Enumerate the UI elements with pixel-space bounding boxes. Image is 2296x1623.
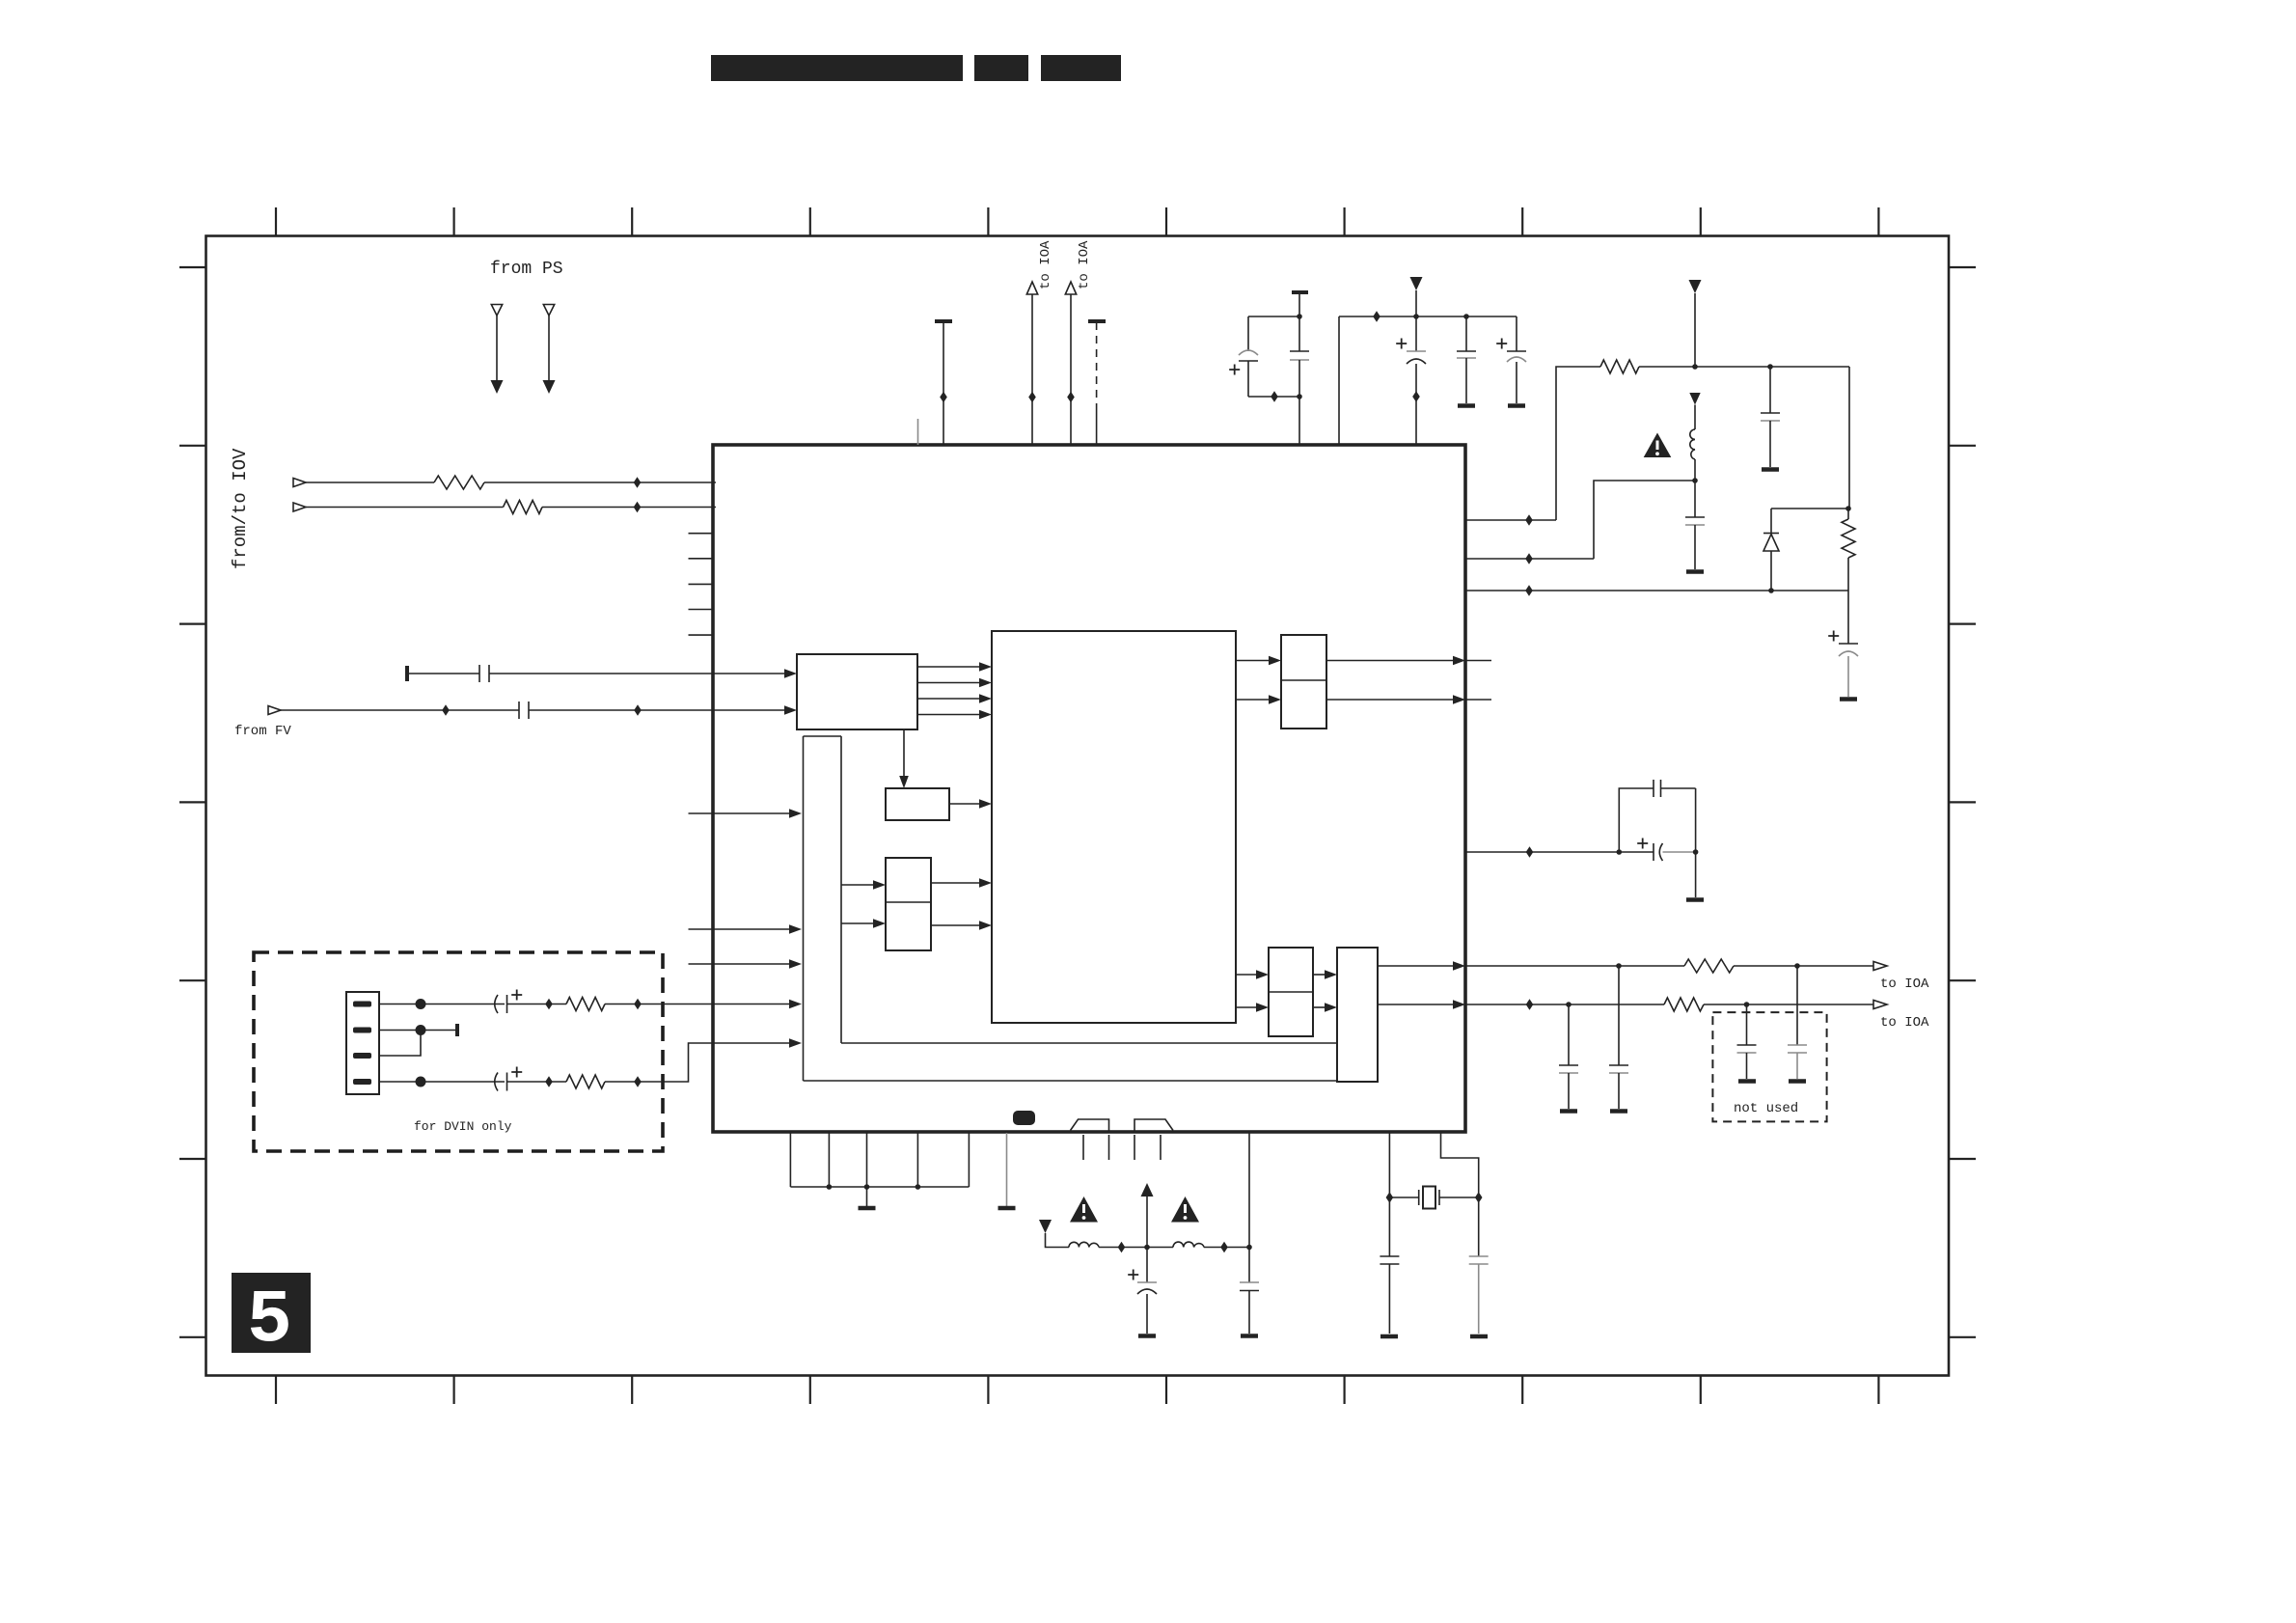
junction on FV wire left [442,704,450,716]
ground under C16 [1610,1109,1627,1114]
wire right vertical from resistor row [1848,367,1850,509]
ground under C20 [1241,1334,1258,1338]
wire crystal right leg riser [1441,1133,1479,1256]
wire U1a down to U1b [903,729,905,776]
capacitor C10 [1761,367,1780,467]
wire bus riser outer [803,736,805,1081]
connector J1 [346,992,379,1094]
wire IC right pin 1 run [1465,519,1556,521]
terminal arrow from/to IOV line 1 [293,479,306,487]
wire U1a output 1 to core [917,666,979,668]
junction [1767,364,1773,370]
wire bus bottom run outer [804,1080,1338,1082]
capacitor C9 electrolytic [1496,316,1526,403]
signal arrow up to IOA 1 [1026,282,1037,294]
junction [1297,394,1302,399]
sub-block U1e dual output top [1281,635,1326,729]
sub-block U1b [886,788,949,820]
supply rail bar over C6 [1292,290,1308,294]
junction [827,1184,833,1190]
IC left pin stub 3 [689,583,715,585]
junction [634,999,642,1010]
wire U1c output 1 to core [931,882,979,884]
warning triangle right [1644,433,1672,458]
wire bus tap to U1c input 2 [841,922,873,924]
ground under C9 [1508,403,1525,408]
sub-block U1g output buffer loop [1337,948,1378,1082]
junction [1246,1245,1252,1251]
wire output A run to IOA [1465,965,1684,967]
IC bottom connector pin stubs [1082,1135,1084,1160]
svg-text:to IOA: to IOA [1077,240,1092,289]
redacted title text bar 3 [1041,55,1121,81]
junction [1525,553,1533,564]
IC right edge stub out 2 [1465,699,1491,701]
junction [1067,392,1075,403]
junction [1794,963,1800,969]
junction [1386,1192,1394,1203]
wire decoupling pair top link [1248,316,1299,317]
wire output B run to IOA [1465,1004,1664,1005]
wire L-filter mid [1099,1247,1173,1249]
resistor R8 [1664,998,1704,1011]
inductor L2 [1069,1242,1099,1247]
ground under C10 [1762,467,1779,472]
wire from FV into IC pin [281,709,519,711]
wire R3 to IC [605,1004,713,1005]
junction [1373,311,1380,322]
warning triangle filter right [1171,1197,1199,1223]
ground under C18 [1789,1079,1806,1084]
redacted title text bar 1 [711,55,963,81]
IC left pin stub 4 [689,609,715,611]
junction [1297,314,1302,319]
junction on IOV line 1 [634,477,642,488]
crystal X1 [1389,1187,1478,1209]
resistor R5 [1600,360,1639,373]
wire diode top link [1771,508,1848,509]
junction [1475,1192,1483,1203]
wire IOV line 1 into IC [306,481,434,483]
wire U1g output A to IC edge [1378,965,1453,967]
wire U1e output 2 to IC edge [1326,699,1453,701]
junction on rail stub [940,392,947,403]
junction [416,999,426,1009]
wire input arrow to U1a lower [713,709,784,711]
ground under stub group [866,1187,868,1206]
wire IC input arrow pin D to bus [713,1004,789,1005]
wire supply row to IC top [1338,316,1340,445]
black component blob on IC [1013,1111,1035,1125]
junction [1768,588,1774,593]
wire U1f output 1 to U1g [1313,974,1325,976]
ground under C15 [1560,1109,1577,1114]
ground under C19 [1138,1334,1156,1338]
wire riser pin2 to coil node [1594,481,1695,559]
connector tab outline left on IC bottom [1071,1119,1109,1133]
wire crystal left leg [1388,1133,1390,1256]
junction [1525,514,1533,526]
capacitor C15 [1559,1004,1578,1109]
resistor R2 [504,501,542,514]
capacitor C14 electrolytic horizontal [1637,839,1695,862]
junction [1463,314,1469,319]
signal arrow up to IOA 2 [1065,282,1076,294]
wire core to U1f input 2 [1236,1006,1256,1008]
wire L-filter right [1204,1247,1249,1249]
wire U1e output 1 to IC edge [1326,660,1453,662]
supply arrow down into L-filter [1039,1220,1069,1248]
wire series-cap line into IC pin [405,666,409,681]
wire bus bottom run inner [841,1042,1337,1044]
wire J1 pin4 run [379,1081,505,1083]
junction [1744,1002,1750,1007]
ground under C17 [1738,1079,1756,1084]
wire core to U1e input 2 [1236,699,1269,701]
resistor R3 [566,998,605,1011]
wire feedback bridge bottom run [1465,851,1654,853]
junction [416,1025,426,1035]
capacitor C6 [1290,293,1309,445]
capacitor C4 electrolytic horizontal [495,1067,566,1091]
terminal arrow to IOA output B [1873,1001,1887,1009]
supply arrow down onto resistor row [1689,280,1702,367]
IC U1 (main video processor block outline) [713,445,1465,1132]
IC left pin stub 1 [689,533,715,535]
junction on IOV line 2 [634,502,642,513]
wire input arrow to U1a upper [713,673,784,674]
wire IC input arrow pin E to bus [713,1042,789,1044]
wire U1f output 2 to U1g [1313,1006,1325,1008]
terminal bar pin2 [455,1024,459,1036]
ground under C22 [1470,1334,1488,1339]
IC left pin stub 5 [689,634,715,636]
supply rail dashed stub with bar [1088,319,1106,323]
junction [1566,1002,1572,1007]
resistor R7 [1684,959,1734,973]
wire U1a output 2 to core [917,682,979,684]
wire IC input arrow pin B to bus [689,928,790,930]
wire IOV line 2 into IC [306,507,504,509]
terminal arrow from FV [268,706,281,715]
ground under C12 [1840,697,1857,701]
ground under bridge [1686,897,1704,902]
resistor R1 [434,476,484,489]
wire bridge right leg to ground [1695,788,1697,897]
junction [864,1184,870,1190]
IC top pin stub [917,419,919,445]
wire U1a output 3 to core [917,698,979,700]
wire joining bottom stubs [790,1186,969,1188]
sub-block U1d central core [992,631,1236,1023]
capacitor C13 horizontal [1654,780,1696,797]
sub-block U1a input interface [797,654,917,729]
wire U1c output 2 to core [931,924,979,926]
wire core to U1e input 1 [1236,660,1269,662]
wire supply row horizontal [1339,316,1517,317]
junction [545,1076,553,1087]
wire IC right pin 2 run [1465,558,1594,560]
svg-text:from PS: from PS [490,260,563,279]
wire IC right pin 3 run [1465,590,1848,591]
IC right edge stub out 1 [1465,660,1491,662]
junction [545,999,553,1010]
ground under C11 [1686,569,1704,574]
wire U1g output B to IC edge [1378,1004,1453,1005]
inductor L3 [1173,1242,1204,1247]
supply arrow down onto row [1410,277,1423,316]
junction [1616,963,1622,969]
page number badge 5 [232,1273,311,1363]
wire resistor row to corner [1639,366,1849,368]
svg-text:to IOA: to IOA [1880,977,1929,992]
redacted title text bar 2 [974,55,1028,81]
sub-block U1c dual stage [886,858,931,950]
junction [1413,314,1419,319]
capacitor C11 [1685,481,1705,569]
junction [1525,585,1533,596]
wire J1 pin1 run [379,1004,505,1005]
terminal arrow from/to IOV line 2 [293,503,306,511]
diode D1 [1763,509,1779,591]
junction [634,1076,642,1087]
capacitor C21 [1380,1256,1399,1334]
for DVIN only dashed box [254,952,663,1151]
capacitor C22 [1469,1256,1489,1334]
svg-text:for DVIN only: for DVIN only [414,1119,512,1134]
warning triangle filter left [1070,1197,1098,1223]
junction [1028,392,1036,403]
connector tab outline right on IC bottom [1134,1119,1173,1133]
capacitor C1 [478,665,480,682]
wire R4 to IC via step [605,1043,713,1082]
junction [416,1077,426,1087]
svg-text:5: 5 [247,1279,292,1363]
IC bottom pin stub with ground 2 [1006,1133,1008,1206]
power feed arrow from PS 1 [491,305,504,395]
supply rail stub with bar [935,319,952,323]
wire IC input arrow pin C to bus [689,963,790,965]
junction [1144,1245,1150,1251]
capacitor C3 electrolytic horizontal [495,990,566,1014]
wire riser to resistor row [1556,367,1600,520]
resistor R4 [566,1075,605,1088]
wire bus top link [804,735,842,737]
wire feedback bridge top run [1619,788,1654,852]
wire riser filter to IC bottom [1248,1133,1250,1248]
ground under C8 [1458,403,1475,408]
junction [1526,999,1534,1010]
junction [1617,849,1623,855]
junction [1271,391,1278,402]
junction [1693,849,1699,855]
capacitor C18 in box [1788,966,1807,1079]
capacitor C20 [1240,1248,1259,1334]
IC bottom pin stub group with ground [789,1133,791,1187]
svg-text:not used: not used [1734,1101,1798,1116]
junction [1118,1242,1126,1253]
wire bus tap to U1c input 1 [841,884,873,886]
capacitor C19 electrolytic [1128,1248,1157,1334]
junction [916,1184,921,1190]
svg-text:from/to IOV: from/to IOV [230,448,251,569]
wire bus riser inner [840,736,842,1043]
junction on FV wire right [634,704,642,716]
svg-text:to IOA: to IOA [1880,1015,1929,1031]
junction [1220,1242,1228,1253]
wire decoupling pair bottom link [1248,396,1299,398]
capacitor C5 electrolytic [1229,316,1258,397]
wire U1a output 4 to core [917,714,979,716]
not used dashed box [1712,1012,1826,1121]
wire J1 pin3 up to pin2 node [379,1031,421,1057]
junction [1692,478,1698,483]
sub-block U1f dual output bottom [1269,948,1313,1036]
capacitor C2 [518,701,520,719]
capacitor C8 [1457,316,1476,403]
junction [1526,846,1534,858]
junction [1845,506,1851,511]
resistor R6 vertical [1842,509,1855,591]
ground under C21 [1380,1334,1398,1339]
IC left pin stub 2 [689,558,715,560]
capacitor C17 in box [1737,1004,1757,1079]
capacitor C12 electrolytic [1828,591,1858,697]
wire U1b output to core [949,803,979,805]
inductor L1 [1690,429,1695,459]
wire core to U1f input 1 [1236,974,1256,976]
power feed arrow from PS 2 [543,305,556,395]
supply arrow down into L1 [1689,393,1700,429]
signal arrow up from filter node [1141,1183,1154,1248]
wire J1 pin2 to test point [379,1030,457,1032]
wire IC input arrow pin A to bus [689,812,790,814]
svg-text:from FV: from FV [234,724,291,739]
svg-text:to IOA: to IOA [1038,240,1053,289]
junction [1692,364,1698,370]
capacitor C16 [1609,966,1628,1109]
terminal arrow to IOA output A [1873,962,1887,971]
capacitor C7 electrolytic [1396,316,1426,445]
